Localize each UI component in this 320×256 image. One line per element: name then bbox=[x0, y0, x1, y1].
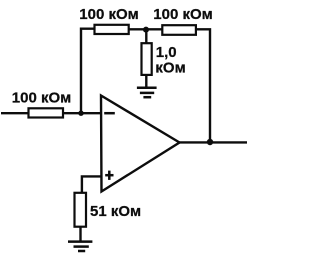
wire output bbox=[180, 141, 248, 143]
plus sign noninverting input bbox=[105, 171, 113, 180]
svg-text:100 кОм: 100 кОм bbox=[79, 6, 138, 23]
svg-text:1,0: 1,0 bbox=[156, 44, 177, 61]
ground G1 bbox=[137, 88, 157, 98]
resistor R5 51 kOm bbox=[75, 193, 87, 227]
wire feedback left vertical bbox=[81, 29, 95, 114]
wire R2 to node B bbox=[129, 28, 163, 30]
wire node B down to R4 bbox=[145, 30, 147, 44]
resistor R3 100 kOm feedback second bbox=[162, 25, 196, 35]
op-amp U1 triangle bbox=[101, 96, 180, 192]
svg-text:100 кОм: 100 кОм bbox=[153, 6, 212, 23]
resistor R1 100 kOm input bbox=[29, 108, 64, 117]
svg-text:кОм: кОм bbox=[155, 60, 185, 77]
ground G2 bbox=[68, 242, 92, 251]
node C output junction dot bbox=[207, 139, 213, 145]
resistor R4 1.0 kOm shunt bbox=[142, 43, 152, 75]
resistor R2 100 kOm feedback first bbox=[95, 25, 129, 34]
minus sign inverting input bbox=[104, 112, 115, 115]
wire noninverting input bbox=[82, 176, 101, 193]
wire R5 to ground bbox=[79, 227, 81, 242]
svg-text:51 кОм: 51 кОм bbox=[90, 203, 141, 220]
wire R1 to inverting input bbox=[63, 112, 101, 114]
svg-text:100 кОм: 100 кОм bbox=[12, 89, 71, 106]
node B junction dot bbox=[143, 27, 149, 33]
node A junction dot bbox=[78, 111, 83, 116]
wire input left bbox=[1, 112, 29, 114]
wire R4 to ground bbox=[145, 75, 147, 88]
wire feedback right vertical to output bbox=[196, 29, 210, 142]
